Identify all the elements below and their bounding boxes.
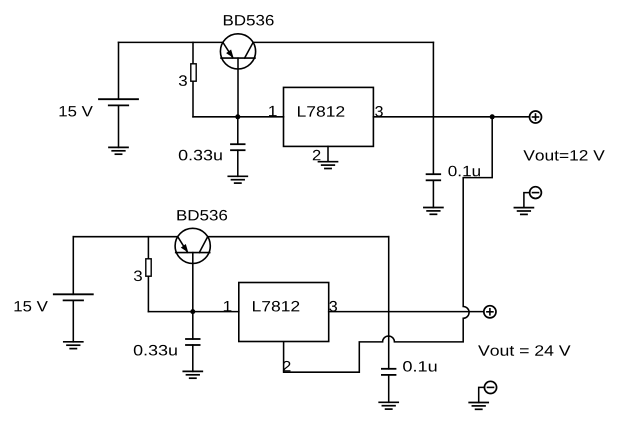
label net Vout=12 V <box>523 150 604 161</box>
terminal minus 12V with ground <box>524 187 541 208</box>
capacitor C3 0.1u <box>427 174 441 207</box>
ground below C4 <box>379 402 398 409</box>
wire collector drop to C4 <box>388 237 390 369</box>
resistor R1 body <box>191 64 196 81</box>
wire interstage 12V to bottom pin2 with hops <box>284 117 493 372</box>
ground below U1 pin2 <box>319 162 338 169</box>
node C junction dot <box>190 309 195 314</box>
label Q1 BD536 <box>224 15 274 26</box>
label U2 pin2 <box>283 361 291 372</box>
label C4 value 0.1u <box>403 361 436 372</box>
wire U1 pin3 output <box>373 116 529 118</box>
capacitor C4 0.1u <box>382 369 396 403</box>
wire U1 pin2 stub <box>327 146 329 161</box>
ground at bottom minus terminal <box>469 403 488 410</box>
wire U1 pin1 input <box>238 116 284 118</box>
ground below C3 <box>424 208 443 215</box>
terminal minus 24V with ground <box>479 381 497 402</box>
terminal plus output 24V <box>484 306 496 318</box>
wire top supply rail <box>119 41 434 43</box>
label U2 L7812 <box>253 301 299 312</box>
regulator U1 L7812 box <box>284 87 374 146</box>
resistor R2 body <box>146 259 151 276</box>
label R2 value 3 <box>134 271 142 282</box>
wire bottom supply rail <box>73 236 388 238</box>
label U2 pin3 <box>329 301 337 312</box>
transistor Q1 BD536 <box>220 34 255 117</box>
ground below C2 <box>183 371 202 378</box>
ground at minus terminal top <box>514 208 533 215</box>
label B2 15 V <box>15 301 48 311</box>
terminal plus output 12V <box>530 111 542 123</box>
label U2 pin1 <box>224 301 232 311</box>
ground below battery B1 <box>109 147 128 154</box>
transistor Q2 BD536 <box>175 228 210 311</box>
resistor R1 (3 ohm) branch wires <box>193 42 238 116</box>
label C2 value 0.33u <box>134 345 177 356</box>
ground below battery B2 <box>64 342 83 349</box>
label U1 pin1 <box>269 106 277 116</box>
capacitor C2 0.33u <box>186 312 200 372</box>
node A junction dot <box>235 114 240 119</box>
node B output junction dot <box>490 114 495 119</box>
ground below C1 <box>228 176 247 183</box>
label C3 value 0.1u <box>448 166 480 177</box>
capacitor C1 0.33u <box>231 117 245 177</box>
regulator U2 L7812 box <box>239 283 329 342</box>
wire U2 pin1 input <box>193 311 239 313</box>
resistor R2 (3 ohm) branch wires <box>148 237 192 312</box>
wire collector drop to C3 <box>432 42 434 174</box>
battery B1 15 V <box>99 42 138 147</box>
label Q2 BD536 <box>177 210 227 221</box>
wire U2 pin3 output <box>329 311 484 313</box>
label U1 pin3 <box>375 106 383 117</box>
label R1 value 3 <box>179 75 187 86</box>
label net Vout = 24 V <box>478 345 570 356</box>
battery B2 15 V <box>54 237 93 342</box>
label U1 pin2 <box>313 150 321 161</box>
label B1 15 V <box>60 106 93 116</box>
label C1 value 0.33u <box>179 150 222 161</box>
label U1 L7812 <box>298 106 344 117</box>
